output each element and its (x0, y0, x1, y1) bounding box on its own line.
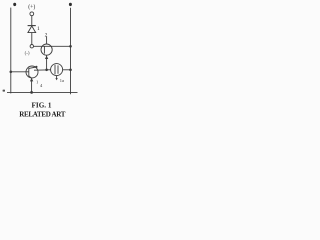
svg-text:1a: 1a (60, 78, 64, 83)
transistor Q2 bar 1 (54, 65, 56, 75)
transistor Q1 base bar (43, 46, 45, 54)
junction dot left rail (10, 71, 13, 74)
wire diode to node (31, 33, 33, 45)
transistor Q3 base bar (28, 68, 30, 76)
terminal circle (+) (30, 12, 34, 16)
transistor Q3 circle (26, 66, 38, 78)
junction dot bottom rail (30, 91, 33, 94)
transistor Q1 emitter arrow (45, 56, 48, 59)
transistor Q3 emitter wire to bottom rail (31, 78, 33, 92)
transistor Q2 base stub arrow (55, 78, 57, 80)
wire Q2 to right rail (63, 69, 71, 71)
wire Q3 collector to junction (34, 69, 47, 71)
label blob top-right (69, 3, 72, 6)
svg-text:(+): (+) (28, 3, 35, 10)
transistor Q3 emitter arrow (30, 78, 33, 81)
label blob top-left (13, 3, 16, 6)
right rail (70, 8, 72, 94)
svg-text:2: 2 (45, 33, 48, 39)
leader line for label 2 (46, 37, 48, 44)
left rail (10, 8, 12, 94)
svg-text:1: 1 (37, 26, 40, 32)
transistor Q1 circle (41, 44, 52, 55)
bottom rail (7, 91, 78, 93)
svg-text:(-): (-) (25, 52, 30, 57)
transistor Q3 emitter diagonal (29, 76, 32, 78)
transistor Q2 circle (51, 64, 63, 76)
transistor Q1 emitter wire (46, 55, 48, 70)
diode D cathode bar (28, 25, 36, 27)
transistor Q3 collector diagonal (29, 67, 36, 68)
wire left rail to Q3 base (11, 71, 29, 73)
transistor Q2 bar 2 (57, 65, 59, 73)
junction dot right rail at Q2 (69, 69, 72, 72)
svg-text:FIG. 1: FIG. 1 (32, 102, 52, 110)
wire junction to Q2 (47, 69, 51, 71)
wire (+) terminal to diode (31, 16, 33, 26)
svg-text:RELATED ART: RELATED ART (19, 111, 66, 119)
transistor Q2 base stub (56, 76, 58, 80)
transistor Q3 collector dot (35, 66, 37, 68)
node circle (30, 45, 33, 48)
junction dot right rail y46 (69, 45, 72, 48)
junction dot node E (45, 69, 48, 72)
speck bottom-left (3, 90, 5, 92)
diode D triangle (28, 26, 36, 33)
wire node to right rail (34, 45, 71, 47)
svg-text:1: 1 (36, 80, 38, 85)
